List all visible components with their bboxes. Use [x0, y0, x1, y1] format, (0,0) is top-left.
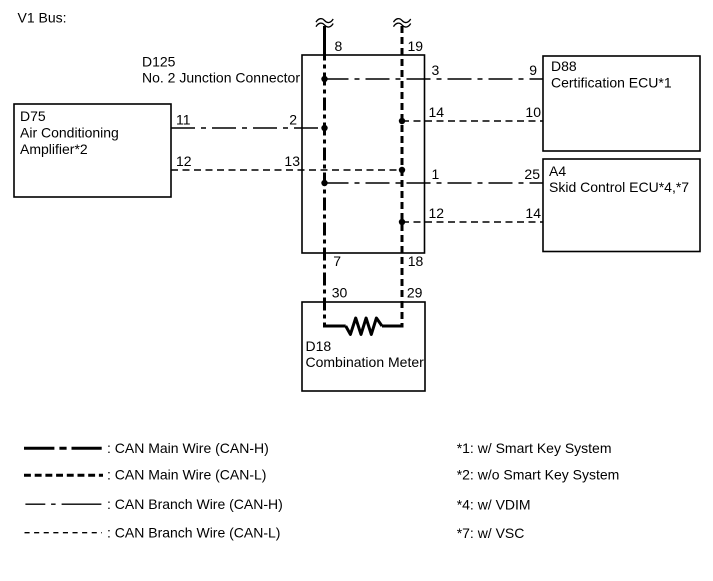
- svg-text:*7: w/ VSC: *7: w/ VSC: [457, 525, 525, 541]
- junction dot CAN-L / pin 14 branch: [399, 118, 405, 124]
- svg-text:: CAN Main Wire (CAN-H): : CAN Main Wire (CAN-H): [107, 440, 269, 456]
- break symbol on CAN-H main wire: [316, 19, 333, 27]
- wire CAN-H main vertical (V1 bus): [323, 26, 326, 52]
- wire CAN-L main vertical (V1 bus): [401, 26, 404, 326]
- legend CAN Branch Wire (CAN-L) sample line: [25, 532, 103, 534]
- ECU D88 Certification ECU: [543, 56, 700, 151]
- svg-text:25: 25: [524, 166, 540, 182]
- svg-text:D125: D125: [142, 54, 176, 70]
- svg-text:*1: w/ Smart Key System: *1: w/ Smart Key System: [457, 440, 612, 456]
- junction dot CAN-L / pin 12 branch: [399, 219, 405, 225]
- svg-text:Skid Control ECU*4,*7: Skid Control ECU*4,*7: [549, 179, 689, 195]
- resistor terminating resistor in D18: [346, 318, 382, 334]
- svg-text:D88: D88: [551, 58, 577, 74]
- svg-text:2: 2: [289, 112, 297, 128]
- svg-text:Combination Meter: Combination Meter: [306, 354, 425, 370]
- wire CAN-L branch D125 pin 14 to D88 pin 10: [402, 120, 543, 122]
- svg-text:9: 9: [529, 62, 537, 78]
- junction dot CAN-H / pin 3 branch: [321, 76, 327, 82]
- svg-text:18: 18: [408, 253, 424, 269]
- svg-text:12: 12: [429, 205, 445, 221]
- svg-text:V1 Bus:: V1 Bus:: [18, 10, 67, 26]
- svg-text:8: 8: [335, 38, 343, 54]
- break symbol on CAN-L main wire: [394, 19, 411, 27]
- svg-text:7: 7: [333, 253, 341, 269]
- svg-text:14: 14: [429, 104, 445, 120]
- legend CAN Main Wire (CAN-L) sample line: [24, 474, 103, 477]
- meter D18 Combination Meter: [302, 302, 425, 391]
- svg-text:13: 13: [284, 153, 300, 169]
- svg-text:*2: w/o Smart Key System: *2: w/o Smart Key System: [457, 467, 620, 483]
- ECU A4 Skid Control ECU: [543, 159, 700, 252]
- svg-text:30: 30: [332, 285, 348, 301]
- junction dot CAN-L / pin 13 branch: [399, 167, 405, 173]
- svg-text:Certification ECU*1: Certification ECU*1: [551, 75, 672, 91]
- svg-text:*4: w/ VDIM: *4: w/ VDIM: [457, 497, 531, 513]
- wire resistor right lead: [382, 325, 404, 328]
- svg-text:Air Conditioning: Air Conditioning: [20, 125, 119, 141]
- svg-text:No. 2 Junction Connector: No. 2 Junction Connector: [142, 70, 300, 86]
- svg-text:11: 11: [176, 112, 191, 128]
- wire resistor left lead: [323, 325, 346, 328]
- wire CAN-H branch D75 pin 11 to D125 pin 2: [171, 127, 325, 129]
- svg-text:D75: D75: [20, 108, 46, 124]
- svg-text:Amplifier*2: Amplifier*2: [20, 141, 88, 157]
- svg-text:19: 19: [408, 38, 424, 54]
- svg-text:D18: D18: [306, 338, 332, 354]
- svg-text:14: 14: [525, 205, 541, 221]
- svg-text:29: 29: [407, 285, 423, 301]
- legend CAN Branch Wire (CAN-H) sample line: [25, 503, 101, 505]
- legend CAN Main Wire (CAN-H) sample line: [24, 447, 102, 450]
- wire CAN-L branch D75 pin 12 to D125 pin 13: [171, 169, 402, 171]
- junction dot CAN-H / pin 2 branch: [321, 125, 327, 131]
- wire CAN-H branch D125 pin 3 to D88 pin 9: [325, 78, 544, 80]
- connector D125 No. 2 Junction Connector: [142, 54, 425, 254]
- svg-text:12: 12: [176, 153, 192, 169]
- svg-text:: CAN Branch Wire (CAN-L): : CAN Branch Wire (CAN-L): [107, 525, 280, 541]
- svg-text:1: 1: [432, 166, 440, 182]
- connector D75 Air Conditioning Amplifier: [14, 104, 171, 197]
- svg-text:: CAN Main Wire (CAN-L): : CAN Main Wire (CAN-L): [107, 467, 266, 483]
- svg-text:A4: A4: [549, 163, 566, 179]
- junction dot CAN-H / pin 1 branch: [321, 180, 327, 186]
- wire CAN-H branch D125 pin 1 to A4 pin 25: [325, 182, 544, 184]
- svg-text:: CAN Branch Wire (CAN-H): : CAN Branch Wire (CAN-H): [107, 496, 283, 512]
- svg-text:3: 3: [432, 62, 440, 78]
- svg-text:10: 10: [525, 104, 541, 120]
- wire CAN-L branch D125 pin 12 to A4 pin 14: [402, 221, 543, 223]
